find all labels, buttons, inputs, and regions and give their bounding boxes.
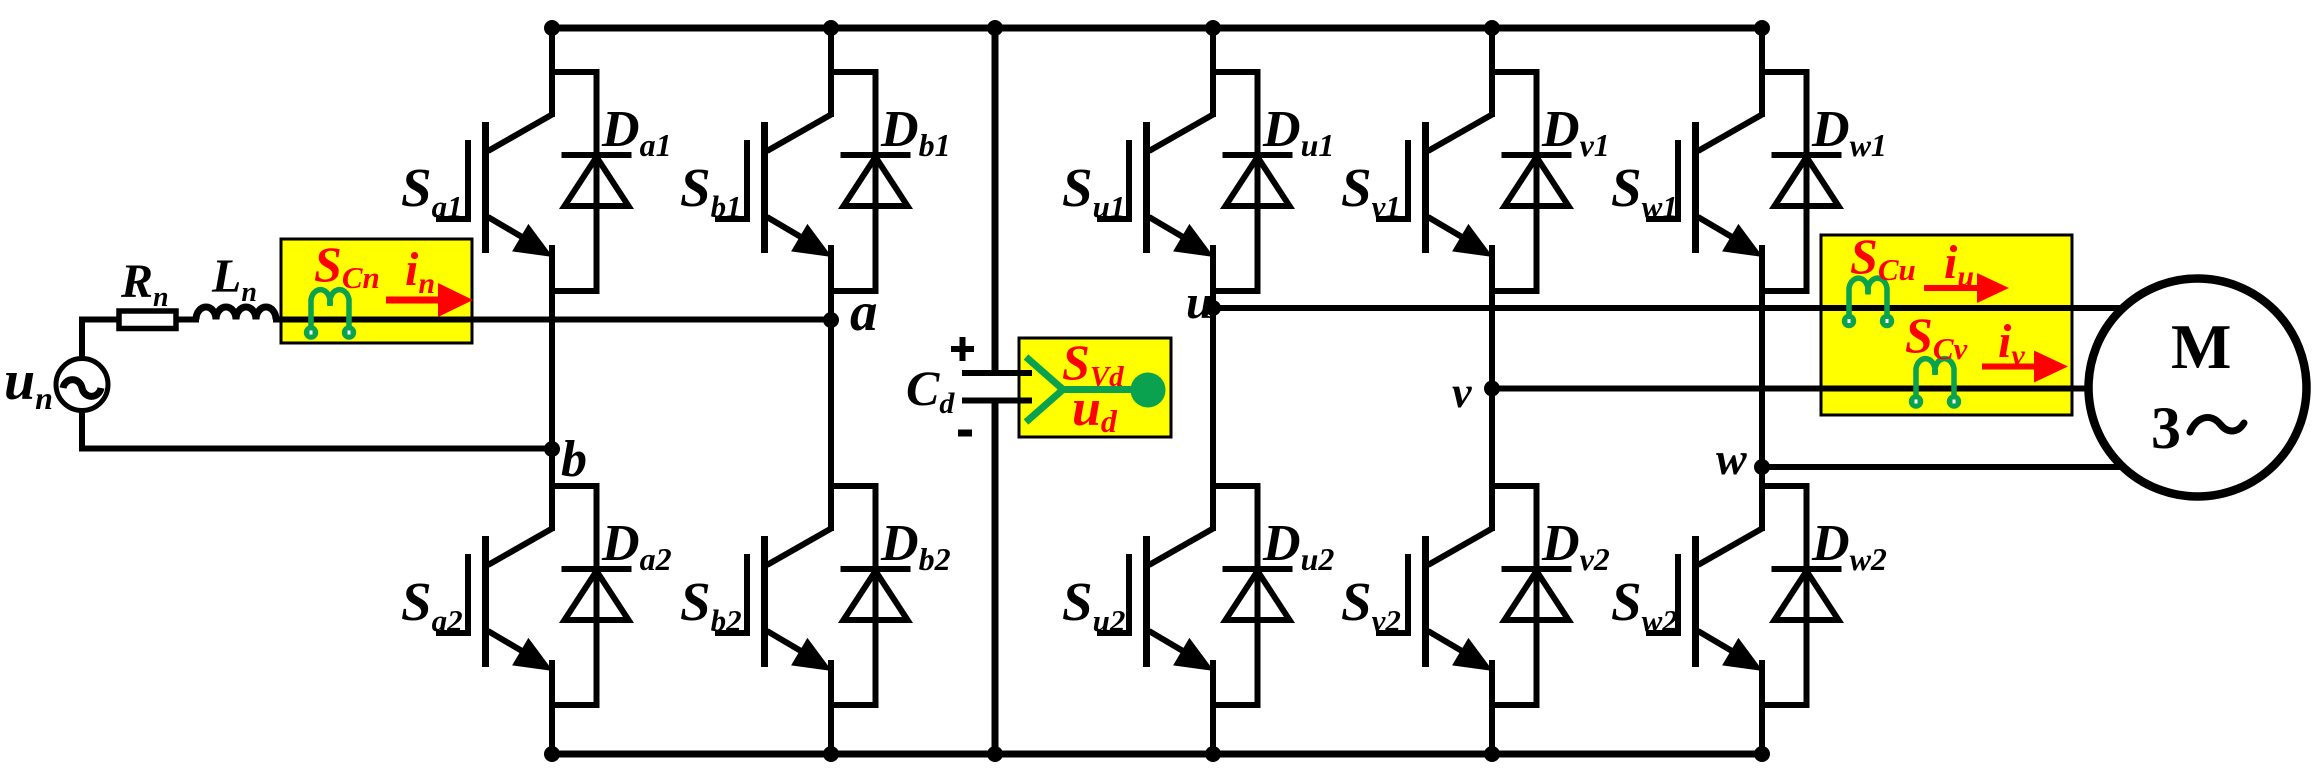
wire leg v emitter-to-mid	[1489, 245, 1495, 531]
diode D_w1 symbol	[1762, 69, 1842, 294]
svg-text:Dw2: Dw2	[1811, 515, 1887, 577]
node bottom bus junction Cd	[987, 746, 1003, 762]
sensor box S_Vd	[1019, 338, 1171, 437]
sensor box S_Cn	[281, 239, 472, 343]
wire leg u collector top	[1210, 25, 1216, 117]
motor M	[2089, 279, 2307, 497]
diode D_b1 symbol	[831, 69, 911, 294]
diode D_u1 symbol	[1213, 69, 1293, 294]
svg-text:Du1: Du1	[1262, 101, 1334, 163]
wire leg v collector top	[1489, 25, 1495, 117]
transistor S_v2	[1376, 528, 1493, 671]
node top bus junction Cd	[987, 20, 1003, 36]
transistor S_a2	[436, 528, 553, 671]
node w	[1754, 459, 1770, 475]
node a	[823, 312, 839, 328]
wire source top	[79, 320, 85, 362]
node top bus junction w	[1754, 20, 1770, 36]
transistor S_b2	[715, 528, 832, 671]
arrow i_n	[386, 283, 473, 317]
wire leg b bottom emitter	[828, 660, 834, 757]
svg-text:Sv1: Sv1	[1341, 157, 1401, 224]
diode D_b2 symbol	[831, 483, 911, 708]
minus sign	[958, 430, 972, 437]
svg-text:Db1: Db1	[880, 101, 951, 163]
svg-text:Sw1: Sw1	[1611, 157, 1678, 224]
wire phase u to motor	[1213, 305, 2125, 311]
wire leg w bottom emitter	[1759, 660, 1765, 757]
svg-text:Db2: Db2	[880, 515, 951, 577]
diode D_u2 symbol	[1213, 483, 1293, 708]
transistor S_w2	[1646, 528, 1763, 671]
diode D_a1 symbol	[552, 69, 632, 294]
svg-text:Dv1: Dv1	[1541, 101, 1610, 163]
voltage sensor S_Vd symbol	[1026, 357, 1133, 422]
node bottom bus junction w	[1754, 746, 1770, 762]
label tilde	[2190, 417, 2244, 432]
current sensor CT n	[304, 290, 356, 340]
svg-text:Ln: Ln	[211, 250, 257, 308]
wire leg v bottom emitter	[1489, 660, 1495, 757]
svg-text:Su2: Su2	[1062, 571, 1125, 638]
node bottom bus junction b	[823, 746, 839, 762]
wire phase w to motor	[1762, 464, 2125, 470]
svg-text:Sw2: Sw2	[1611, 571, 1678, 638]
svg-text:Du2: Du2	[1262, 515, 1334, 577]
inductor Ln	[196, 307, 276, 320]
node top bus junction a	[544, 20, 560, 36]
svg-text:Sb1: Sb1	[680, 157, 742, 224]
wire bottom return to b	[79, 446, 552, 452]
svg-text:Su1: Su1	[1062, 157, 1125, 224]
wire leg a collector top	[549, 25, 555, 117]
svg-text:un: un	[4, 350, 53, 416]
transistor S_b1	[715, 114, 832, 257]
node top bus junction u	[1205, 20, 1221, 36]
wire leg a emitter-to-mid	[549, 245, 555, 531]
svg-text:Sa2: Sa2	[401, 571, 463, 638]
wire Rn to Ln	[176, 317, 199, 323]
wire Cd top	[992, 28, 999, 373]
svg-text:b: b	[561, 431, 587, 488]
sensor box S_Cu S_Cv	[1821, 235, 2072, 415]
svg-text:Dw1: Dw1	[1811, 101, 1887, 163]
source un symbol	[56, 359, 108, 411]
wire top DC bus	[549, 25, 1765, 32]
svg-text:Sb2: Sb2	[680, 571, 742, 638]
svg-text:u: u	[1186, 276, 1213, 329]
resistor Rn	[119, 311, 176, 329]
wire bottom DC bus	[549, 751, 1765, 758]
wire leg w emitter-to-mid	[1759, 245, 1765, 531]
current sensor CT u	[1842, 278, 1894, 328]
wire Cd bottom	[992, 400, 999, 754]
node top bus junction b	[823, 20, 839, 36]
transistor S_a1	[436, 114, 553, 257]
svg-text:Cd: Cd	[906, 360, 955, 420]
svg-text:w: w	[1716, 433, 1747, 484]
transistor S_w1	[1646, 114, 1763, 257]
wire source to Rn	[79, 317, 119, 323]
node top bus junction v	[1484, 20, 1500, 36]
wire leg w collector top	[1759, 25, 1765, 117]
node bottom bus junction u	[1205, 746, 1221, 762]
svg-text:Da1: Da1	[601, 101, 672, 163]
diode D_v1 symbol	[1492, 69, 1572, 294]
diode D_v2 symbol	[1492, 483, 1572, 708]
svg-text:Sa1: Sa1	[401, 157, 463, 224]
wire leg b emitter-to-mid	[828, 245, 834, 531]
arrow i_u	[1924, 273, 2009, 303]
node u	[1205, 300, 1221, 316]
node bottom bus junction v	[1484, 746, 1500, 762]
diode D_w2 symbol	[1762, 483, 1842, 708]
svg-text:Da2: Da2	[601, 515, 672, 577]
wire phase v to motor	[1492, 386, 2095, 392]
transistor S_u2	[1097, 528, 1214, 671]
node v	[1484, 381, 1500, 397]
wire source bottom	[79, 408, 85, 449]
svg-text:Rn: Rn	[120, 255, 169, 313]
capacitor Cd plates	[962, 370, 1032, 376]
arrow i_v	[1982, 351, 2068, 383]
transistor S_u1	[1097, 114, 1214, 257]
svg-text:a: a	[850, 281, 878, 342]
svg-text:3: 3	[2151, 395, 2181, 461]
svg-text:Dv2: Dv2	[1541, 515, 1610, 577]
wire leg a bottom emitter	[549, 660, 555, 757]
plus sign	[951, 346, 974, 352]
diode D_a2 symbol	[552, 483, 632, 708]
wire leg u emitter-to-mid	[1210, 245, 1216, 531]
current sensor CT v	[1909, 359, 1961, 409]
wire leg b collector top	[828, 25, 834, 117]
node bottom bus junction a	[544, 746, 560, 762]
svg-text:v: v	[1452, 368, 1472, 417]
wire leg u bottom emitter	[1210, 660, 1216, 757]
node b	[544, 441, 560, 457]
transistor S_v1	[1376, 114, 1493, 257]
svg-text:Sv2: Sv2	[1341, 571, 1401, 638]
svg-text:M: M	[2171, 311, 2231, 382]
wire input to node a	[273, 317, 831, 323]
